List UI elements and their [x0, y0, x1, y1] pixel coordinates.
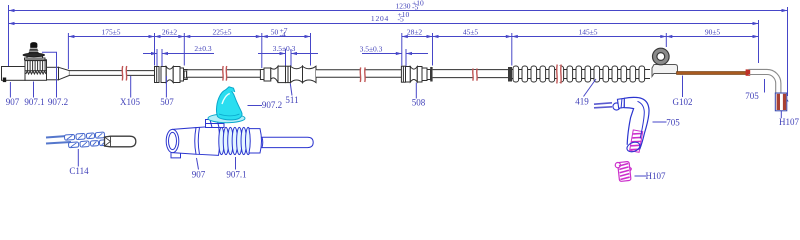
extension line 507 right: [183, 33, 185, 66]
detail C114 terminal lower: [68, 140, 108, 148]
detail elbow tube 705: [624, 97, 649, 153]
extension line 508 right: [432, 33, 434, 66]
leader 705 (detail): [653, 118, 681, 128]
break mark 5: [557, 66, 561, 82]
red marker band on wire: [746, 69, 751, 75]
leader 907.2 (bent): [42, 52, 68, 107]
grommet 511 assembly: [260, 66, 316, 82]
leader 511: [285, 84, 298, 106]
leader 508: [412, 83, 426, 108]
ring terminal washer: [653, 48, 670, 65]
dimension 1204: [9, 10, 759, 25]
ground lead wire (brown): [677, 72, 749, 75]
svg-text:2±0.3: 2±0.3: [194, 44, 211, 53]
leader 907.1 (detail): [226, 157, 246, 180]
detail C114 terminal upper: [64, 132, 104, 140]
dimension 145±5: [512, 36, 667, 38]
leader 419: [575, 79, 596, 107]
svg-text:-5: -5: [398, 15, 404, 24]
leader 907.1: [24, 82, 44, 108]
wire segment 3: [316, 70, 401, 77]
svg-text:-5: -5: [412, 3, 418, 12]
extension line right H107: [787, 7, 789, 96]
dimension 1230 overall length: [9, 0, 788, 12]
leader H107 (main view): [779, 111, 799, 127]
break mark 1: [123, 68, 127, 80]
svg-text:419: 419: [575, 97, 589, 107]
svg-text:175±5: 175±5: [101, 28, 120, 37]
grommet 507: [155, 67, 188, 83]
dimension 50: [262, 26, 311, 39]
detail 907.1 corrugated boot: [219, 127, 251, 154]
clip 907.2 fir-tree mount: [23, 42, 45, 60]
wire segment 2: [187, 70, 260, 77]
svg-text:1204: 1204: [371, 14, 389, 23]
grommet 907.1 ribbed block: [25, 60, 47, 81]
break mark 3: [361, 69, 365, 81]
detail C114 wires: [46, 136, 71, 144]
dimension 2±0.3 clip width: [143, 44, 214, 66]
grommet 508: [401, 66, 432, 82]
break mark 4: [473, 70, 477, 79]
leader 907: [6, 82, 20, 107]
detail 907 left cylinder: [166, 128, 196, 158]
leader 907 (detail): [192, 158, 206, 180]
extension line left datum: [8, 5, 10, 66]
break mark 2: [223, 68, 226, 80]
svg-text:G102: G102: [673, 97, 693, 107]
dimension 3.5±0.3 clip 508: [360, 45, 428, 67]
dimension 28±2: [402, 36, 433, 38]
svg-text:26±2: 26±2: [162, 28, 178, 37]
detail 907 cable tail: [262, 137, 313, 147]
svg-text:3.5±0.3: 3.5±0.3: [273, 44, 296, 53]
label X105: [120, 76, 140, 107]
svg-text:3.5±0.3: 3.5±0.3: [360, 45, 383, 54]
extension line 511 right: [310, 33, 312, 66]
svg-text:225±5: 225±5: [212, 28, 231, 37]
svg-text:907.1: 907.1: [24, 97, 44, 107]
dimension 3.5±0.3 clip 511: [258, 44, 318, 66]
leader 907.2 (detail): [248, 100, 283, 110]
detail 907 clip base: [206, 120, 225, 128]
svg-text:145±5: 145±5: [578, 28, 597, 37]
svg-text:705: 705: [745, 91, 759, 101]
leader H107 (detail): [635, 171, 666, 181]
detail 705 cable stub: [594, 103, 612, 108]
dimension 175±5: [68, 36, 154, 38]
extension line 511 left: [261, 33, 263, 68]
svg-text:907.1: 907.1: [226, 170, 246, 180]
svg-text:28±2: 28±2: [407, 28, 423, 37]
svg-text:50: 50: [271, 28, 279, 37]
svg-text:H107: H107: [646, 171, 666, 181]
detail 907 main barrel: [195, 126, 220, 155]
svg-text:907.2: 907.2: [48, 97, 68, 107]
svg-text:507: 507: [160, 97, 174, 107]
corrugated tube 419: [508, 66, 650, 82]
svg-text:508: 508: [412, 97, 426, 107]
extension line elbow 705: [758, 20, 760, 63]
leader 507: [160, 76, 174, 107]
wire segment 1: [69, 71, 154, 76]
svg-text:907.2: 907.2: [262, 100, 282, 110]
svg-text:H107: H107: [779, 117, 799, 127]
detail 705 inline fitting: [613, 98, 626, 110]
sensor connector 907 body: [2, 67, 26, 83]
ring terminal plate: [652, 65, 678, 77]
detail connector H107 (magenta): [615, 161, 633, 182]
dimension 45±5: [433, 36, 512, 38]
detail clip 907.2 highlighted (cyan): [208, 87, 245, 123]
extension line 508 left: [401, 33, 403, 66]
extension line tube 419 start: [511, 33, 513, 66]
leader C114: [69, 149, 89, 176]
svg-text:X105: X105: [120, 97, 140, 107]
dimension 225±5: [184, 36, 261, 38]
connector H107 (main view): [775, 93, 788, 111]
svg-text:90±5: 90±5: [705, 28, 721, 37]
svg-text:907: 907: [192, 170, 206, 180]
detail C114 capsule: [105, 136, 136, 147]
elbow sleeve 705: [749, 69, 781, 93]
extension line ring terminal: [665, 33, 667, 47]
boot sleeve: [47, 67, 59, 80]
svg-text:705: 705: [666, 118, 680, 128]
svg-text:511: 511: [285, 95, 298, 105]
svg-text:907: 907: [6, 97, 20, 107]
detail 907 right barrel: [249, 129, 262, 153]
extension line 507 left: [154, 33, 156, 66]
wire segment 4: [433, 70, 508, 78]
extension line cable start: [67, 33, 69, 69]
leader 705 (main view): [745, 79, 764, 101]
boot taper: [59, 67, 70, 80]
leader G102: [673, 76, 693, 108]
dimension 90±5: [666, 36, 758, 38]
svg-text:-4: -4: [280, 30, 286, 39]
svg-text:45±5: 45±5: [463, 28, 479, 37]
svg-text:C114: C114: [69, 166, 89, 176]
dimension 26±2: [155, 36, 185, 38]
